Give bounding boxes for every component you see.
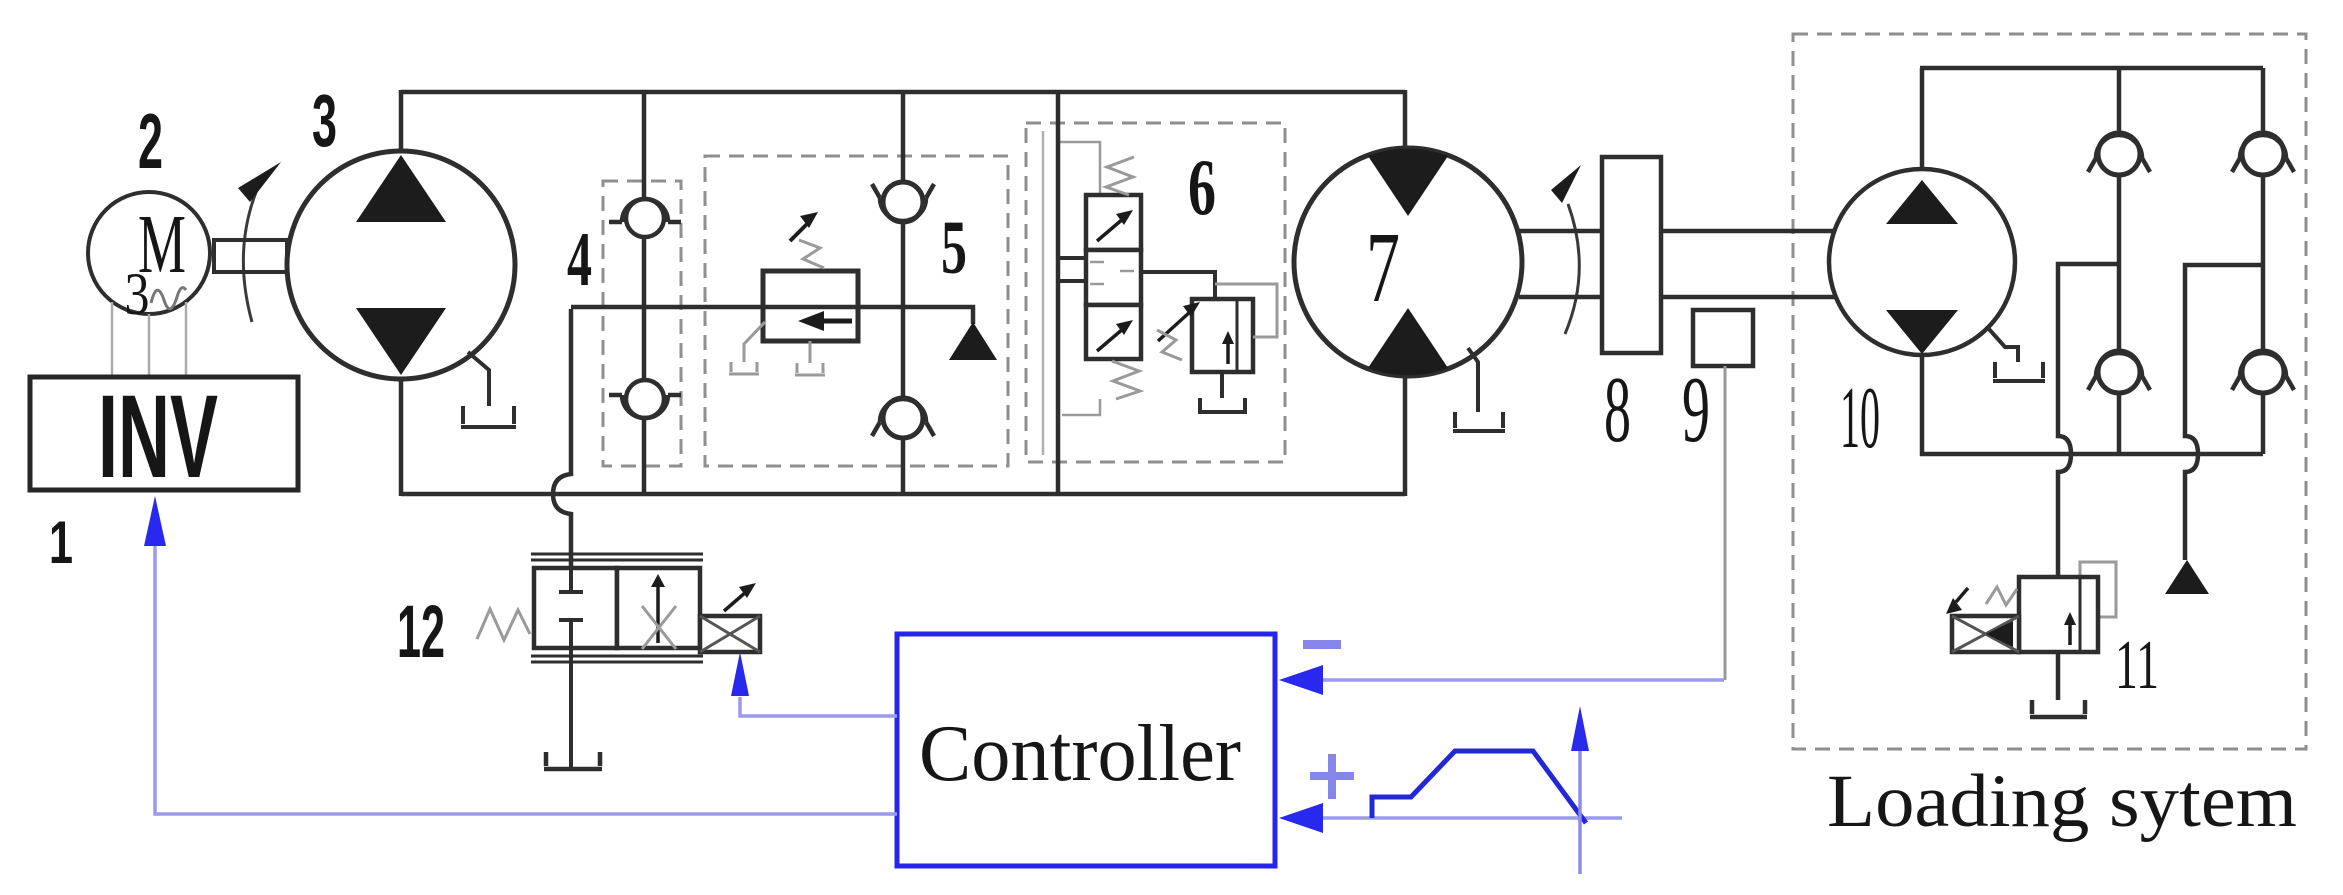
relief valve 11 pilot loop (2080, 562, 2116, 617)
motor 7 bottom wedge (1368, 308, 1448, 375)
valve 6 bottom box arrow (1097, 328, 1124, 351)
valve 12 top rails (531, 554, 703, 560)
valve 6 top box arrow (1097, 218, 1124, 241)
check valve 5 lower (883, 398, 923, 438)
motor M sine squiggle (151, 288, 186, 309)
loading pump 10 circle (1829, 169, 2015, 355)
svg-text:INV: INV (98, 371, 218, 503)
relief valve 5 spring (799, 240, 824, 268)
loading check column left wire (2117, 68, 2122, 454)
loading pump 10 case drain (1988, 328, 2045, 381)
loading check valve top-left (2098, 133, 2140, 175)
motor 7 circle (1294, 148, 1522, 376)
valve 12 bottom rails (531, 656, 703, 662)
gray subplate line of valve 6 (1042, 131, 1045, 455)
loading branch wire to relief 11 with hop (2058, 264, 2119, 577)
valve 12 spring (477, 609, 530, 640)
relief valve 11 body (2019, 577, 2098, 652)
pump 3 case drain (461, 352, 516, 427)
valve 12 supply wire with hop over bus (553, 309, 571, 592)
valve 12 solenoid cross (700, 616, 760, 652)
motor 7 bottom wire (1403, 370, 1408, 496)
svg-text:1: 1 (49, 509, 73, 576)
pump 3 outlet wire (399, 90, 404, 160)
command arrow into controller (1279, 803, 1323, 833)
valve 6 spring top (1106, 157, 1134, 195)
relief valve 5 spring arrow (790, 223, 808, 241)
inverter INV box (30, 377, 298, 490)
relief valve 11 solenoid box (1952, 616, 2019, 652)
relief valve 6 drain (1198, 372, 1247, 412)
control wire to valve 12 (740, 697, 897, 716)
relief valve 6 arrow (1226, 341, 1230, 364)
valve 12 right box (617, 568, 700, 648)
check valve 4 upper (626, 199, 664, 237)
loading pump 10 top triangle (1886, 180, 1958, 224)
valve 6 port stub upper (1058, 256, 1086, 260)
svg-text:9: 9 (1682, 358, 1710, 462)
loading bottom rail wire (1920, 452, 2263, 457)
dashed enclosure component 5 (705, 156, 1008, 466)
dashed enclosure loading system (1793, 34, 2306, 749)
check valve 4 branch wire (642, 92, 647, 494)
control arrow to valve 12 (731, 652, 749, 696)
relief valve 11 arrow (2068, 622, 2072, 645)
valve 6 output wire to relief (1141, 272, 1215, 299)
pump 3 top triangle (356, 155, 446, 222)
pump 3 return wire (399, 370, 404, 496)
check valve 5 branch wire (901, 92, 906, 494)
motor M circle (88, 192, 210, 314)
valve 12 throttle cross (642, 606, 676, 649)
sensor 9 signal wire (1724, 366, 1727, 680)
rotation arrow of motor 7 (1565, 204, 1579, 334)
relief valve 6 pilot loop (1215, 284, 1277, 337)
loading tank triangle (2165, 560, 2209, 594)
shaft sensor 8 to pump 10 (1661, 231, 1835, 297)
svg-text:7: 7 (1366, 211, 1400, 323)
relief branch wire (571, 307, 973, 324)
gray pilot line bottom of valve 6 (1062, 399, 1100, 415)
loading check valve bottom-left (2098, 351, 2140, 393)
pump 3 bottom triangle (356, 308, 446, 375)
loading check valve bottom-right (2242, 351, 2284, 393)
loading pump 10 bottom triangle (1886, 310, 1958, 354)
relief valve 5 pilot drain left (729, 322, 765, 374)
valve 12 solenoid arrow (724, 592, 746, 611)
relief valve 11 spring (1986, 587, 2017, 605)
svg-text:3: 3 (312, 79, 337, 162)
svg-text:2: 2 (138, 97, 163, 185)
plus sign (1310, 772, 1354, 780)
minus sign (1303, 640, 1341, 649)
svg-text:4: 4 (567, 216, 592, 302)
valve 6 middle box gray marks (1090, 262, 1134, 284)
relief valve 11 control arrow (1956, 588, 1968, 602)
svg-text:11: 11 (2115, 627, 2159, 704)
relief valve 11 solenoid cross (1952, 616, 2019, 652)
valve 6 box bottom (1086, 305, 1141, 359)
relief valve 5 pilot drain bottom (795, 341, 825, 375)
svg-text:Controller: Controller (919, 710, 1241, 798)
svg-text:10: 10 (1840, 370, 1880, 467)
tank triangle node of branch 5 (949, 322, 997, 360)
loading top rail wire (1920, 66, 2263, 71)
valve 6 spring bottom (1112, 361, 1140, 399)
top bus wire (401, 90, 1405, 95)
svg-text:Loading sytem: Loading sytem (1827, 760, 2297, 843)
valve 12 throttle arrow (656, 584, 660, 643)
controller box (897, 634, 1275, 866)
bottom bus wire (401, 492, 1405, 497)
valve 6 box top (1086, 195, 1141, 250)
relief valve 6 spring (1157, 330, 1182, 360)
valve 12 solenoid box (700, 616, 760, 652)
svg-text:6: 6 (1188, 144, 1216, 232)
valve 12 left box (534, 568, 617, 648)
feedback wire from sensor 9 (1320, 678, 1724, 682)
motor 7 top wire (1403, 90, 1408, 160)
loading check column right wire (2261, 68, 2266, 454)
relief valve 5 arrow (820, 319, 852, 324)
signal axis line (1578, 750, 1582, 874)
trapezoid command signal (1372, 751, 1586, 823)
rotation arrow of pump 3 (243, 174, 264, 322)
motor 7 case drain (1453, 348, 1505, 431)
svg-text:12: 12 (397, 590, 445, 673)
shaft M to pump 3 (214, 238, 288, 274)
relief valve 5 body (763, 271, 858, 341)
shaft motor 7 to sensor 8 (1519, 231, 1602, 297)
svg-text:5: 5 (941, 206, 967, 290)
valve 6 branch wire (1056, 92, 1061, 494)
gray pilot line top of valve 6 (1060, 142, 1100, 195)
command wire input (1320, 816, 1622, 820)
valve 6 port stub lower (1058, 279, 1086, 283)
valve 12 tank symbol (544, 752, 602, 769)
dashed enclosure component 4 (603, 181, 681, 466)
relief valve 11 solenoid filled arrow (1986, 621, 2013, 647)
check valve 5 upper (883, 182, 923, 222)
signal axis arrowhead (1571, 706, 1589, 751)
relief valve 6 proportional arrow (1158, 311, 1191, 341)
dashed enclosure component 6 (1026, 123, 1285, 462)
loading pump 10 bottom wire (1920, 350, 1925, 456)
valve 12 closed-port symbol (559, 568, 583, 770)
sensor 8 body (1602, 157, 1661, 353)
control wire to inverter (155, 546, 897, 814)
relief valve 6 body (1192, 299, 1253, 372)
check valve 4 lower (626, 380, 664, 418)
control arrow to inverter (144, 496, 166, 546)
sensor 9 body (1693, 310, 1753, 366)
loading check valve top-right (2242, 133, 2284, 175)
motor M wires to inverter (112, 302, 186, 377)
loading pump 10 top wire (1920, 68, 1925, 175)
feedback arrow into controller (1279, 665, 1323, 695)
motor 7 top wedge (1368, 149, 1448, 216)
pump 3 circle (287, 151, 515, 379)
loading branch wire to tank with hop (2185, 265, 2263, 560)
svg-text:3: 3 (125, 261, 150, 327)
relief valve 11 drain (2030, 652, 2087, 717)
valve 6 box middle (1086, 250, 1141, 305)
svg-text:8: 8 (1604, 358, 1631, 462)
